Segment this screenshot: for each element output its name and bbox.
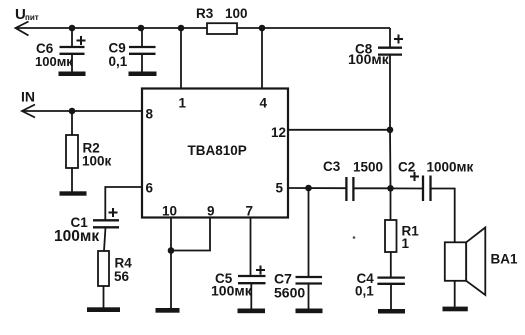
svg-text:56: 56 xyxy=(114,269,130,284)
wire pin 7 xyxy=(250,218,252,277)
ground (C9) xyxy=(129,72,157,77)
svg-text:12: 12 xyxy=(271,125,286,140)
ground (R2) xyxy=(60,191,87,195)
wire output node to C2 xyxy=(391,187,424,189)
junction C7/pin5 xyxy=(305,185,312,192)
capacitor C8 xyxy=(348,28,403,130)
ground (C5) xyxy=(238,309,266,314)
capacitor C1 xyxy=(54,208,119,251)
wire pin 9 xyxy=(171,218,210,251)
capacitor C5 xyxy=(211,266,266,309)
ground (C7) xyxy=(296,309,323,314)
svg-text:9: 9 xyxy=(207,204,215,219)
svg-text:8: 8 xyxy=(146,107,154,122)
svg-text:100мк: 100мк xyxy=(35,54,73,69)
junction output node xyxy=(387,185,394,192)
ground (C4) xyxy=(378,309,405,314)
junction pin1/top xyxy=(178,25,185,32)
svg-text:0,1: 0,1 xyxy=(355,284,374,299)
wire pin 1 drop xyxy=(180,28,182,89)
wire pin 4 drop xyxy=(261,28,263,89)
ground (pin 10) xyxy=(156,308,180,313)
op-amp U1 TBA810P xyxy=(142,89,288,219)
speaker BA1 xyxy=(445,228,518,307)
wire pin 6 xyxy=(105,187,142,220)
capacitor C7 xyxy=(274,271,322,309)
capacitor C4 xyxy=(355,271,405,310)
wire IN to pin 8 xyxy=(23,110,142,112)
svg-text:1: 1 xyxy=(402,236,410,251)
wire down to C7 xyxy=(308,188,310,277)
svg-text:1: 1 xyxy=(179,96,187,111)
wire C2 to speaker xyxy=(431,189,455,243)
resistor R4 xyxy=(98,251,132,308)
resistor R2 xyxy=(66,111,112,192)
node Uпит xyxy=(15,6,39,36)
wire C3 to output node xyxy=(353,187,390,189)
svg-text:6: 6 xyxy=(146,181,154,196)
ground (C6) xyxy=(59,72,86,77)
wire C8 node down to output node xyxy=(389,130,392,189)
node IN xyxy=(21,89,35,118)
resistor R3 xyxy=(196,6,248,34)
svg-text:TBA810P: TBA810P xyxy=(188,143,247,158)
svg-text:100мк: 100мк xyxy=(54,228,99,245)
capacitor C2 xyxy=(398,160,474,202)
svg-text:100к: 100к xyxy=(82,154,112,169)
svg-text:100: 100 xyxy=(225,6,248,21)
svg-text:R3: R3 xyxy=(196,6,214,21)
wire top rail left (Uпит to R3) xyxy=(16,27,207,29)
junction C6/top xyxy=(69,25,76,32)
svg-text:7: 7 xyxy=(246,204,254,219)
svg-text:IN: IN xyxy=(21,89,35,105)
svg-text:BA1: BA1 xyxy=(491,252,518,267)
capacitor C6 xyxy=(35,28,86,73)
svg-text:10: 10 xyxy=(162,204,177,219)
speck xyxy=(353,236,356,239)
junction C9/top xyxy=(138,25,145,32)
svg-text:0,1: 0,1 xyxy=(109,54,128,69)
ground (speaker) xyxy=(443,307,468,312)
junction R2/IN xyxy=(69,108,76,115)
ground (R4) xyxy=(87,307,120,312)
svg-text:C3: C3 xyxy=(323,159,341,174)
svg-text:100мк: 100мк xyxy=(211,283,253,299)
wire top rail right (R3 to C8 corner) xyxy=(237,27,390,29)
wire pin 12 xyxy=(288,129,390,131)
resistor R1 xyxy=(385,188,419,277)
junction pin4/top xyxy=(259,25,266,32)
svg-text:100мк: 100мк xyxy=(348,51,390,67)
capacitor C9 xyxy=(109,28,156,73)
svg-text:1500: 1500 xyxy=(353,160,383,175)
svg-text:5: 5 xyxy=(276,181,284,196)
svg-text:4: 4 xyxy=(260,96,268,111)
svg-text:1000мк: 1000мк xyxy=(427,160,474,175)
capacitor C3 xyxy=(323,159,383,201)
junction pin9/pin10 xyxy=(168,247,175,254)
svg-text:пит: пит xyxy=(25,13,39,22)
wire pin 10 xyxy=(170,218,172,309)
wire pin 5 xyxy=(288,187,346,189)
junction C8/pin12 xyxy=(387,127,394,134)
svg-text:C2: C2 xyxy=(398,160,415,175)
svg-text:5600: 5600 xyxy=(274,285,305,301)
